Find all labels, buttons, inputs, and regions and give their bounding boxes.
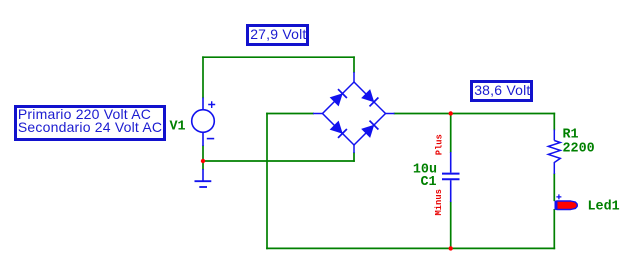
svg-text:C1: C1 xyxy=(421,175,437,190)
diode bridge xyxy=(313,72,395,153)
diode D1 top-left (anode left corner, cathode top corner) xyxy=(331,89,347,105)
svg-text:2200: 2200 xyxy=(563,141,595,156)
wire bridge left to left branch xyxy=(267,113,313,115)
wire cap top xyxy=(450,114,452,153)
wire junction to bridge bottom horizontal xyxy=(203,160,354,162)
LED Led1 xyxy=(556,201,578,210)
svg-text:Led1: Led1 xyxy=(588,200,620,215)
svg-text:Minus: Minus xyxy=(434,189,444,215)
svg-text:V1: V1 xyxy=(170,120,186,135)
wire top rail from V1 top to bridge top xyxy=(203,56,354,58)
resistor R1 xyxy=(548,130,560,175)
wire bottom rail xyxy=(267,247,554,249)
wire R1 top vertical xyxy=(553,114,555,130)
junction node bridge-right / cap top xyxy=(449,111,453,115)
wire left vertical down xyxy=(266,114,268,249)
capacitor C1 xyxy=(442,152,460,202)
wire V1 top vertical xyxy=(202,57,204,97)
annotation box: transformer ratio xyxy=(14,105,167,142)
diode D2 top-right (anode top corner, cathode right corner) xyxy=(362,90,378,106)
wire bridge top pin green xyxy=(353,57,355,72)
junction node cap bottom / bottom rail xyxy=(449,246,453,250)
junction node V1-bottom xyxy=(201,159,205,163)
voltage source V1 xyxy=(192,98,215,147)
LED plus mark xyxy=(556,194,561,199)
diode D4 bottom-right (anode bottom corner, cathode right corner) xyxy=(362,121,378,137)
diode D3 bottom-left (anode left corner, cathode bottom corner) xyxy=(331,122,347,138)
annotation box: 27,9 Volt xyxy=(246,24,309,46)
annotation box: 38,6 Volt xyxy=(470,80,533,102)
wire LED bottom xyxy=(553,210,555,249)
wire bridge bottom pin green xyxy=(353,153,355,161)
svg-text:Plus: Plus xyxy=(435,134,445,155)
wire V1 bottom to junction xyxy=(202,146,204,161)
V1 plus mark xyxy=(208,101,215,108)
ground xyxy=(195,169,212,187)
wire R1 bottom to LED xyxy=(553,174,555,200)
V1 minus mark xyxy=(207,138,214,140)
wire bridge right to R1 corner xyxy=(395,113,555,115)
wire cap bottom xyxy=(450,202,452,248)
wire ground drop xyxy=(202,161,204,169)
